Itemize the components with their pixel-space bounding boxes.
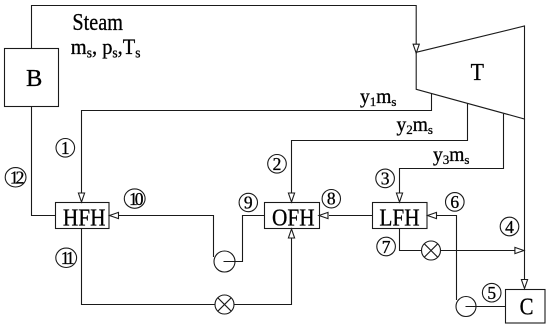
svg-text:9: 9: [244, 193, 253, 213]
turbine T: [416, 26, 524, 119]
svg-text:2: 2: [273, 154, 282, 174]
svg-text:5: 5: [487, 283, 496, 303]
node 4: [500, 217, 519, 236]
svg-text:3: 3: [381, 169, 390, 189]
svg-text:7: 7: [382, 237, 391, 257]
node 6: [446, 193, 465, 212]
heater HFH box: [56, 203, 110, 229]
node 11: [56, 248, 77, 267]
wire LFH drain to exhaust line: [400, 229, 422, 251]
heater OFH box: [265, 203, 320, 229]
svg-text:Steam: Steam: [72, 9, 123, 36]
svg-text:4: 4: [505, 217, 514, 237]
wire B to steam main: [32, 6, 417, 49]
wire HFH feedwater to boiler: [32, 107, 56, 216]
arrow drain into exhaust line: [515, 247, 524, 253]
node 10: [124, 189, 145, 208]
node 5: [482, 283, 501, 302]
svg-text:B: B: [26, 65, 42, 92]
arrow condensate into LFH: [428, 212, 437, 218]
node 3: [376, 169, 395, 188]
svg-text:C: C: [520, 293, 534, 320]
wire OFH to pump P1: [224, 216, 265, 262]
svg-text:8: 8: [327, 189, 336, 209]
valve V2: [422, 241, 441, 260]
node 1: [56, 139, 75, 158]
valve V2 cross: [424, 244, 437, 257]
node 12: [5, 168, 26, 187]
valve V1: [215, 295, 234, 314]
condenser C box: [506, 290, 546, 324]
wire LFH to OFH: [329, 215, 373, 217]
wire extraction y2: [292, 104, 468, 193]
wire valve V1 to OFH bottom: [234, 239, 292, 305]
boiler B: [5, 49, 59, 107]
arrow y3 into LFH: [396, 193, 402, 202]
arrow feedwater into HFH: [110, 212, 119, 218]
pump P1: [214, 251, 235, 272]
svg-text:ms, ps,Ts: ms, ps,Ts: [71, 34, 141, 61]
node 9: [239, 193, 257, 211]
node 7: [377, 237, 396, 256]
wire HFH drain to valve V1: [82, 229, 216, 305]
wire pump P1 up to HFH: [119, 216, 214, 258]
arrow y2 into OFH: [288, 193, 294, 202]
svg-text:OFH: OFH: [272, 204, 315, 231]
valve V1 cross: [218, 298, 231, 311]
arrow exhaust into C: [521, 280, 527, 289]
node 2: [268, 155, 287, 174]
wire extraction y1: [82, 94, 432, 193]
heater LFH box: [373, 203, 428, 229]
svg-text:y1ms: y1ms: [360, 87, 396, 109]
arrow y1 into HFH: [78, 193, 84, 202]
svg-text:LFH: LFH: [379, 204, 419, 231]
svg-text:y2ms: y2ms: [397, 115, 433, 137]
wire valve V2 to exhaust line: [441, 250, 515, 252]
svg-text:y3ms: y3ms: [433, 145, 469, 167]
arrow steam into turbine: [413, 44, 419, 53]
svg-text:1: 1: [61, 138, 70, 158]
svg-text:6: 6: [450, 192, 459, 212]
wire turbine exhaust to condenser: [524, 119, 526, 280]
wire extraction y3: [400, 114, 504, 193]
arrow HFH drain into OFH bottom: [288, 229, 294, 238]
wire pump P2 up to LFH: [437, 216, 457, 301]
svg-text:HFH: HFH: [63, 204, 106, 231]
svg-text:T: T: [471, 59, 484, 86]
node 8: [322, 190, 340, 208]
pump P2: [456, 297, 476, 317]
wire condenser to pump P2: [466, 306, 506, 308]
arrow feedwater into OFH: [319, 212, 328, 218]
